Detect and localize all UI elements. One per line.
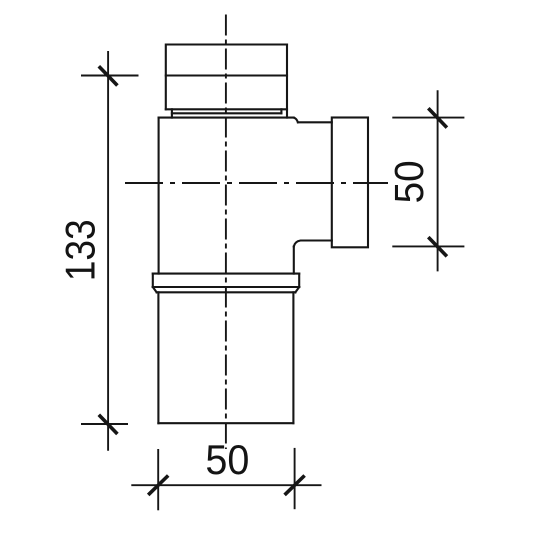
lower spigot left edge xyxy=(157,292,159,423)
dim 133 extension line bottom xyxy=(81,423,128,425)
vertical centerline xyxy=(225,15,227,450)
dim 50 bottom dimension line xyxy=(131,484,321,486)
tick dim50right bottom xyxy=(428,237,447,256)
tick dim50bottom right xyxy=(285,476,305,495)
top socket bottom edge xyxy=(166,108,287,110)
dim 50 right extension line top xyxy=(392,117,464,119)
tick dim50bottom left xyxy=(148,476,168,495)
collar right chamfer xyxy=(295,287,299,292)
dim 50 bottom extension line left xyxy=(157,449,159,510)
collar bottom line xyxy=(153,286,299,288)
lower spigot right edge xyxy=(292,292,294,423)
tick dim133 top xyxy=(99,66,118,85)
horizontal centerline xyxy=(125,182,388,184)
dim 50 right extension line bottom xyxy=(392,245,464,247)
tick dim133 bottom xyxy=(99,415,118,434)
collar top line xyxy=(153,273,299,275)
top socket right edge xyxy=(286,45,288,118)
svg-text:50: 50 xyxy=(386,160,432,203)
neck ring right vertical xyxy=(280,109,282,113)
collar left edge xyxy=(152,274,154,287)
top socket hub outline xyxy=(166,45,287,110)
collar right edge xyxy=(298,274,300,287)
dim 133 dimension line xyxy=(107,51,109,451)
collar left chamfer xyxy=(153,287,157,292)
body left edge xyxy=(158,118,160,274)
svg-text:50: 50 xyxy=(205,436,249,483)
dim 50 bottom extension line right xyxy=(294,448,296,509)
collar lip bottom line xyxy=(157,291,296,293)
branch outlet bottom line xyxy=(294,241,332,247)
body right edge below branch xyxy=(293,247,295,274)
dim 50 right dimension line xyxy=(437,90,439,271)
svg-text:133: 133 xyxy=(57,219,104,281)
branch outlet top line xyxy=(298,121,332,123)
lower spigot bottom edge xyxy=(158,422,293,424)
tick dim50right top xyxy=(428,108,447,127)
body top shoulder line xyxy=(159,117,294,119)
branch socket outline xyxy=(332,118,368,248)
neck step left vertical xyxy=(171,109,173,117)
neck ring bottom line xyxy=(172,112,282,114)
top socket internal shoulder line xyxy=(166,74,287,76)
branch top step chamfer xyxy=(294,118,298,123)
dim 133 extension line top xyxy=(81,75,139,77)
